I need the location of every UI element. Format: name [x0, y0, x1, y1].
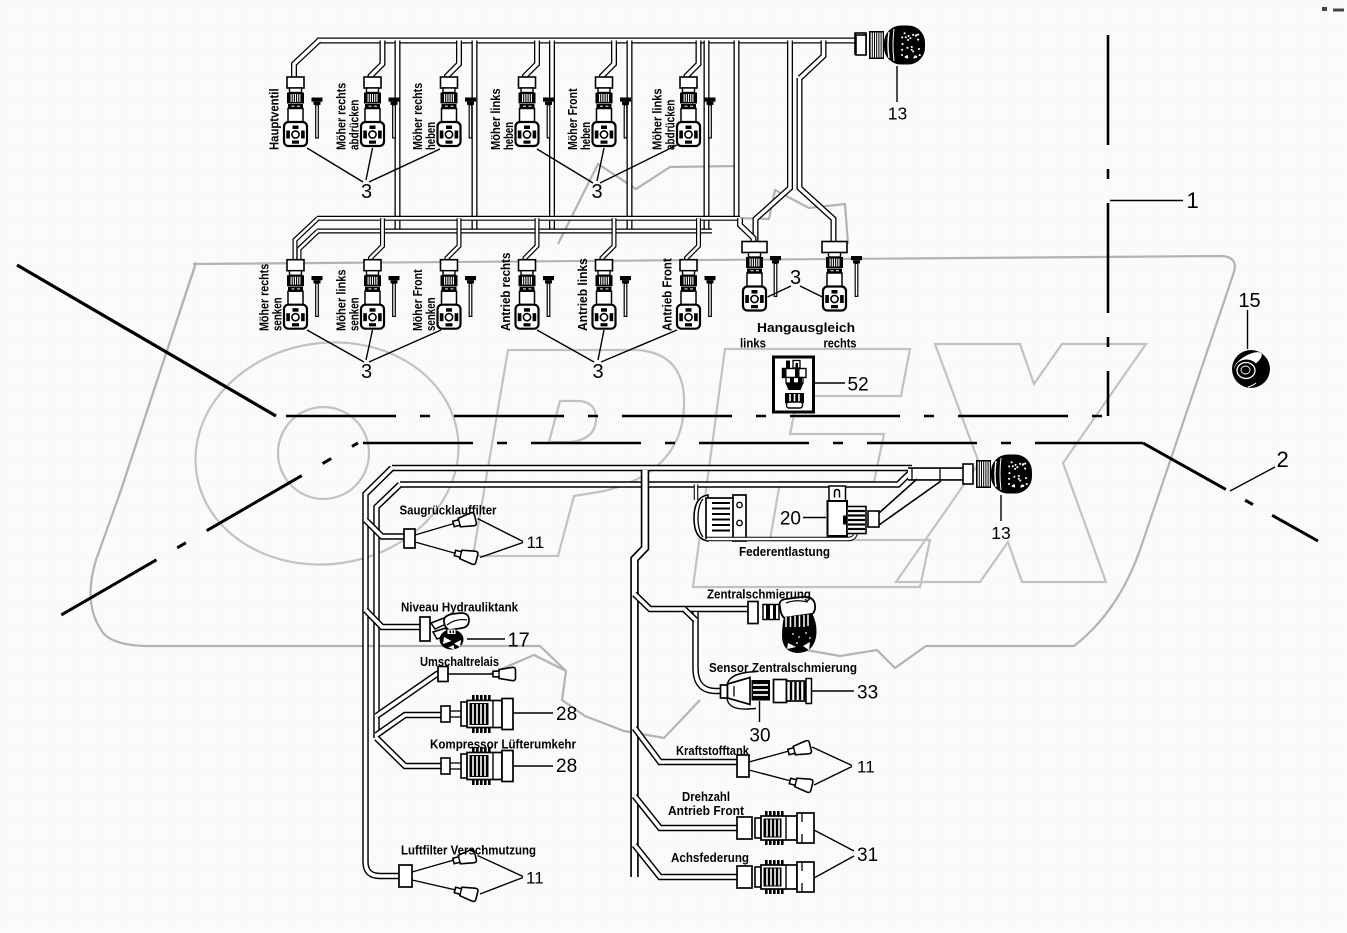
leaders to label 3 (group 1 row 1) — [307, 148, 363, 182]
connector rect sensor — [721, 685, 728, 698]
wire: Umschaltrelais branch — [377, 674, 441, 716]
wires from 20 to bus — [879, 479, 917, 513]
wire: lower bus merged right — [908, 467, 964, 481]
valve connector: Hangausgleich rechts — [822, 242, 847, 311]
sensor box 52 — [774, 357, 814, 412]
wire: drop to row2 valve connector x=449 — [447, 218, 459, 260]
diamond leads 11 — [412, 860, 454, 872]
svg-text:3: 3 — [361, 181, 372, 203]
svg-text:17: 17 — [508, 630, 530, 652]
wire: vertical feed to Hangausgleich left corner — [734, 41, 740, 217]
border line 1 vertical dash-dot — [1107, 35, 1110, 416]
funnel connector 30 — [728, 678, 771, 705]
wire: row2 bus upper left bend — [295, 218, 318, 260]
wire: top bus left bend to Hauptventil — [294, 41, 319, 79]
svg-text:Kompressor Lüfterumkehr: Kompressor Lüfterumkehr — [430, 738, 576, 752]
wire: Niveau Hydrauliktank branch — [366, 610, 422, 627]
screw — [312, 276, 323, 316]
label 15 leader — [1247, 310, 1249, 349]
label 28 leader — [513, 712, 553, 714]
svg-text:Antrieb rechts: Antrieb rechts — [499, 253, 513, 331]
svg-text:senken: senken — [348, 297, 362, 331]
wire: relay loop to 20 — [707, 528, 856, 539]
wire: vertical feed x=706.5 — [704, 41, 710, 232]
wire: Saugrücklauffilter branch — [366, 520, 405, 537]
wire: sensor branch curve — [696, 612, 722, 691]
svg-text:13: 13 — [888, 104, 907, 124]
watermark OPEX outline letters — [179, 324, 1146, 587]
connector rect Drehzahl — [737, 817, 752, 839]
valve connector: Möher links senken — [361, 260, 384, 329]
svg-text:2: 2 — [1277, 447, 1289, 472]
svg-text:Niveau Hydrauliktank: Niveau Hydrauliktank — [401, 601, 518, 615]
wire: Zentralschmierung branch — [635, 594, 750, 609]
connector rect Zentralschmierung — [748, 602, 758, 624]
bus division ticks — [911, 468, 913, 481]
valve connector: Antrieb links — [593, 260, 616, 329]
border line 2 horizontal dash-dot — [358, 442, 1143, 445]
border line 2 right diagonal dash-dot — [1143, 443, 1318, 541]
wire: drop to row2 valve connector x=527 — [525, 218, 537, 260]
wire: drop to relay — [694, 485, 699, 501]
svg-text:Antrieb Front: Antrieb Front — [668, 804, 745, 818]
screw — [770, 256, 781, 296]
valve connector: Hangausgleich links — [742, 242, 767, 311]
svg-text:Luftfilter Verschmutzung: Luftfilter Verschmutzung — [401, 844, 536, 858]
wire: sensor branch top join — [684, 609, 696, 620]
wire: top bus end rect — [855, 33, 866, 54]
svg-text:abdrücken: abdrücken — [348, 100, 362, 150]
sensor hull outline — [727, 672, 757, 687]
wire: Drehzahl branch — [635, 796, 739, 828]
svg-text:11: 11 — [527, 533, 545, 552]
svg-text:Möher rechts: Möher rechts — [411, 83, 425, 150]
round connector 15 — [1232, 349, 1271, 388]
cylindrical connector 31 upper — [755, 811, 814, 845]
small cylinder — [763, 605, 779, 620]
screw — [543, 276, 554, 316]
leaders to label 3 Hangausgleich — [768, 286, 792, 297]
wire: Hangausgleich feed jog — [800, 41, 824, 79]
connector rect Saugrücklauffilter — [404, 529, 415, 548]
svg-text:Zentralschmierung: Zentralschmierung — [707, 588, 811, 602]
watermark giant arcs bottom-left — [120, 262, 196, 493]
label 30 leader — [759, 701, 761, 722]
spade connector lower — [788, 775, 813, 793]
screw — [620, 276, 631, 316]
wire: branch to 28 lower — [377, 738, 442, 766]
label 1 leader — [1110, 200, 1183, 202]
svg-text:Saugrücklauffilter: Saugrücklauffilter — [400, 504, 497, 518]
wire: drop to row2 valve connector x=372.5 — [371, 218, 383, 260]
svg-text:1: 1 — [1187, 188, 1199, 213]
border line 2 diagonal dash-dot — [44, 443, 358, 625]
wire: drop to valve connector x=372.5 — [371, 41, 383, 79]
wire: row2 bus lower left bend — [299, 231, 318, 260]
wire: drop to valve connector x=449 — [447, 41, 459, 79]
label 2 leader — [1230, 467, 1275, 491]
svg-text:Kraftstofftank: Kraftstofftank — [676, 744, 749, 758]
svg-text:senken: senken — [424, 297, 438, 331]
svg-text:31: 31 — [857, 845, 878, 866]
cylindrical connector 28 lower — [441, 747, 513, 785]
svg-text:Drehzahl: Drehzahl — [682, 790, 730, 804]
svg-text:33: 33 — [857, 683, 878, 704]
machine outline gray — [91, 164, 1235, 738]
svg-text:3: 3 — [591, 181, 602, 203]
connector rect Kraftstofftank — [737, 755, 749, 777]
svg-text:13: 13 — [991, 523, 1010, 543]
svg-text:Möher Front: Möher Front — [566, 88, 580, 150]
svg-text:52: 52 — [848, 375, 869, 396]
screw — [543, 98, 554, 138]
svg-text:3: 3 — [592, 361, 603, 383]
svg-text:Federentlastung: Federentlastung — [739, 545, 830, 559]
corner marks — [1322, 7, 1327, 11]
svg-text:links: links — [740, 337, 766, 351]
label 13 leader — [1000, 495, 1002, 521]
wire: top bus — [317, 38, 857, 44]
wire: row2 bus corner to Hangausgleich left — [740, 218, 754, 243]
wire: Hangausgleich vertical pair left — [756, 41, 791, 244]
spade connector lower — [453, 547, 478, 565]
label 52 leader — [814, 382, 846, 384]
svg-text:Achsfederung: Achsfederung — [671, 851, 749, 865]
wire: row2 bus lower — [317, 229, 712, 234]
svg-text:heben: heben — [579, 122, 593, 150]
leaders to label 3 (group 1 row 2) — [307, 330, 364, 362]
connector 33 white gap — [774, 680, 787, 703]
screw — [312, 98, 323, 138]
screw — [465, 276, 476, 316]
valve connector: Möher rechts abdrücken — [361, 77, 384, 146]
svg-text:Möher Front: Möher Front — [411, 269, 425, 331]
wire: drop to valve connector x=604 — [602, 41, 614, 79]
label 17 leader — [467, 638, 505, 640]
leaders to label 3 (group 2 row 1) — [537, 149, 593, 183]
label 13 leader — [896, 66, 898, 102]
spade connector upper — [452, 849, 477, 867]
round connector 13 lower — [963, 455, 1032, 494]
wire: vertical feed x=474.5 — [472, 41, 478, 232]
wire: vertical feed x=552 — [549, 41, 555, 232]
wire: vertical feed x=629.5 — [627, 41, 633, 232]
svg-text:Möher links: Möher links — [651, 88, 665, 150]
svg-text:senken: senken — [271, 297, 285, 331]
screw — [620, 98, 631, 138]
wire: drop to row2 valve connector x=688.5 — [687, 218, 699, 260]
wire: left trunk outer — [366, 468, 401, 876]
round connector 13 top — [856, 26, 925, 65]
svg-text:3: 3 — [361, 361, 372, 383]
label 20 leader — [803, 517, 826, 519]
valve connector: Möher Front senken — [438, 260, 461, 329]
svg-text:rechts: rechts — [824, 337, 857, 351]
wire: row2 bus upper — [317, 216, 740, 221]
svg-text:Möher rechts: Möher rechts — [335, 83, 349, 150]
wire: drop to valve connector x=688.5 — [687, 41, 699, 79]
svg-text:28: 28 — [556, 756, 577, 777]
svg-text:Möher links: Möher links — [335, 269, 349, 331]
spade connector lower — [453, 884, 478, 902]
wire: Achsfederung branch — [635, 845, 739, 877]
valve connector: Möher Front heben — [593, 77, 616, 146]
screw — [705, 98, 716, 138]
svg-text:20: 20 — [780, 509, 801, 530]
valve connector: Möher rechts senken — [284, 260, 307, 329]
svg-text:Möher links: Möher links — [489, 88, 503, 150]
border line 1 solid diagonal — [17, 265, 276, 416]
lead to spade — [447, 673, 494, 675]
valve connector: Antrieb rechts — [516, 260, 539, 329]
wire: vertical feed x=397.5 — [395, 41, 401, 232]
svg-text:3: 3 — [790, 267, 801, 289]
wire: Hangausgleich vertical pair right — [800, 78, 834, 243]
svg-text:30: 30 — [749, 726, 770, 747]
svg-text:11: 11 — [857, 758, 875, 777]
wire: drop to row2 valve connector x=604 — [602, 218, 614, 260]
diamond leads 11 — [749, 751, 789, 762]
screw — [389, 276, 400, 316]
svg-text:heben: heben — [424, 122, 438, 150]
svg-text:Hauptventil: Hauptventil — [268, 88, 282, 150]
connector rect Luftfilter — [399, 865, 412, 887]
screw — [851, 256, 862, 296]
spade connector upper — [452, 512, 477, 530]
label 31 leaders — [814, 830, 854, 851]
border line 1 horizontal dash-dot — [276, 415, 1108, 418]
valve connector: Hauptventil — [284, 77, 307, 146]
spade connector upper — [787, 740, 812, 758]
spade connector Umschaltrelais — [493, 667, 516, 680]
svg-text:28: 28 — [556, 704, 577, 725]
svg-text:11: 11 — [526, 869, 544, 888]
wire: drop to valve connector x=527 — [525, 41, 537, 79]
connector rect Niveau — [420, 617, 430, 641]
wire: lower bus B — [400, 471, 912, 485]
leaders to label 3 (group 2 row 2) — [537, 330, 594, 362]
elbow connector 17 — [431, 613, 469, 650]
component 20 box — [828, 486, 880, 536]
screw — [389, 98, 400, 138]
connector rect Umschaltrelais — [438, 667, 448, 682]
cylindrical connector 31 lower — [755, 860, 814, 894]
wire: right trunk — [635, 470, 646, 877]
diamond leads 11 — [415, 524, 454, 536]
svg-text:Umschaltrelais: Umschaltrelais — [420, 655, 499, 669]
svg-text:Möher rechts: Möher rechts — [258, 264, 272, 331]
connector 33 striped — [787, 679, 812, 704]
valve connector: Möher links heben — [516, 77, 539, 146]
wire: left trunk inner — [377, 485, 401, 739]
svg-text:Sensor Zentralschmierung: Sensor Zentralschmierung — [709, 661, 857, 675]
label 33 leader — [812, 690, 855, 692]
wire: branch to 28 upper — [377, 715, 442, 735]
cylindrical connector 28 upper — [441, 695, 513, 733]
svg-text:15: 15 — [1238, 290, 1260, 312]
valve connector: Möher rechts heben — [438, 77, 461, 146]
label 28 leader — [513, 765, 553, 767]
svg-text:abdrücken: abdrücken — [664, 100, 678, 150]
relay Federentlastung — [694, 495, 746, 541]
screw — [465, 98, 476, 138]
wire: Kraftstofftank branch — [635, 728, 739, 762]
valve connector: Antrieb Front — [677, 260, 700, 329]
elbow connector Zentralschmierung — [780, 597, 817, 653]
svg-text:Antrieb Front: Antrieb Front — [661, 257, 675, 331]
screw — [705, 276, 716, 316]
svg-text:heben: heben — [502, 122, 516, 150]
connector rect Achsfederung — [737, 866, 752, 888]
svg-text:Hangausgleich: Hangausgleich — [757, 321, 855, 335]
svg-text:Antrieb links: Antrieb links — [576, 258, 590, 331]
wire: lower bus A — [392, 465, 912, 472]
valve connector: Möher links abdrücken — [677, 77, 700, 146]
